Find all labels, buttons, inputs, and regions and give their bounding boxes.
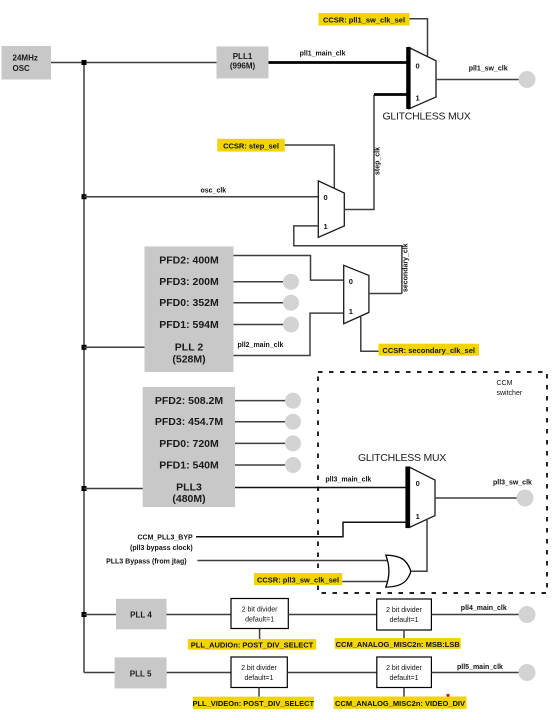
svg-text:default=1: default=1 bbox=[390, 617, 419, 624]
wire PLL2 input from trunk bbox=[84, 346, 145, 348]
svg-text:pll3_main_clk: pll3_main_clk bbox=[325, 477, 371, 484]
svg-text:CCSR: secondary_clk_sel: CCSR: secondary_clk_sel bbox=[382, 346, 475, 355]
svg-text:(480M): (480M) bbox=[172, 493, 205, 505]
terminal PFD0 352M bbox=[283, 295, 299, 311]
terminal PFD0 720M bbox=[285, 435, 301, 451]
svg-text:step_clk: step_clk bbox=[375, 147, 382, 175]
CCM switcher dashed box bbox=[318, 372, 547, 593]
wire PLL3 Bypass to OR gate bbox=[197, 560, 387, 562]
wire step_clk bbox=[344, 95, 374, 210]
wire trunk to PLL4 bbox=[84, 614, 116, 616]
svg-text:PFD0: 352M: PFD0: 352M bbox=[159, 297, 219, 309]
svg-text:switcher: switcher bbox=[497, 390, 523, 397]
svg-text:pll3_sw_clk: pll3_sw_clk bbox=[493, 480, 532, 487]
svg-text:CCM: CCM bbox=[497, 380, 513, 387]
node junction osc/trunk bbox=[82, 60, 87, 65]
svg-text:CCSR: step_sel: CCSR: step_sel bbox=[223, 142, 279, 151]
svg-text:CCM_ANALOG_MISC2n: VIDEO_DIV: CCM_ANALOG_MISC2n: VIDEO_DIV bbox=[335, 699, 465, 708]
svg-text:PLL3: PLL3 bbox=[176, 482, 202, 494]
wire divider D3 to divider D4 bbox=[287, 672, 377, 674]
oscillator OSC (24MHz) bbox=[2, 46, 52, 80]
svg-text:0: 0 bbox=[349, 277, 353, 286]
wire pll1_main_clk bbox=[269, 61, 407, 64]
wire divider D1 to PLL_AUDIOn label bbox=[259, 629, 261, 640]
terminal PFD2 508.2M bbox=[285, 393, 301, 409]
wire osc output to PLL1 bbox=[51, 62, 217, 64]
wire pll3_main_clk bbox=[235, 487, 407, 489]
wire PLL3 input from trunk bbox=[84, 488, 143, 490]
wire divider D3 to PLL_VIDEOn label bbox=[258, 688, 260, 697]
register label PLL_AUDIOn: POST_DIV_SELECT bbox=[188, 639, 316, 650]
terminal PFD3 200M bbox=[283, 274, 299, 290]
svg-text:OSC: OSC bbox=[13, 64, 31, 73]
CCSR: secondary_clk_sel register label bbox=[379, 344, 480, 356]
wire pll1_sw_clk output bbox=[436, 79, 520, 81]
wire PFD0 352M stub bbox=[234, 302, 284, 304]
svg-text:2 bit divider: 2 bit divider bbox=[242, 607, 278, 614]
node junction PLL4 branch bbox=[82, 612, 87, 617]
svg-text:PLL1: PLL1 bbox=[233, 52, 253, 61]
svg-text:default=1: default=1 bbox=[390, 675, 419, 682]
wire PFD2 400M to secondary mux input 0 bbox=[234, 256, 344, 281]
svg-text:pll4_main_clk: pll4_main_clk bbox=[461, 605, 507, 612]
svg-text:pll1_main_clk: pll1_main_clk bbox=[300, 51, 346, 58]
svg-text:PLL 4: PLL 4 bbox=[130, 611, 152, 620]
divider D3 2 bit divider bbox=[231, 657, 287, 688]
svg-text:CCSR: pll1_sw_clk_sel: CCSR: pll1_sw_clk_sel bbox=[323, 16, 405, 25]
PLL1 (996M) bbox=[217, 47, 269, 79]
wire divider D1 to divider D2 bbox=[288, 614, 376, 616]
op-amp mux U1 GLITCHLESS MUX top bbox=[406, 47, 436, 109]
svg-text:default=1: default=1 bbox=[245, 617, 274, 624]
wire pll4_main_clk bbox=[431, 614, 519, 616]
svg-text:1: 1 bbox=[349, 307, 353, 316]
CCSR: pll3_sw_clk_sel register label bbox=[254, 573, 342, 585]
wire pll3_sw_clk_sel to OR gate bbox=[342, 581, 387, 583]
svg-text:PLL_VIDEOn: POST_DIV_SELECT: PLL_VIDEOn: POST_DIV_SELECT bbox=[192, 699, 314, 708]
divider D1 2 bit divider bbox=[231, 599, 288, 629]
wire main vertical trunk bbox=[83, 63, 85, 673]
svg-text:pll2_main_clk: pll2_main_clk bbox=[238, 342, 284, 349]
wire pll2_main_clk to secondary mux input 1 bbox=[234, 313, 344, 355]
wire PFD3 200M stub bbox=[234, 281, 284, 283]
svg-text:1: 1 bbox=[416, 94, 420, 103]
wire select secondary mux bbox=[361, 317, 379, 351]
CCSR: pll1_sw_clk_sel register label bbox=[319, 13, 410, 26]
terminal pll5_main_clk bbox=[519, 664, 536, 681]
svg-text:secondary_clk: secondary_clk bbox=[402, 243, 409, 292]
svg-text:2 bit divider: 2 bit divider bbox=[386, 665, 422, 672]
mux U4 GLITCHLESS MUX bottom bbox=[405, 467, 435, 529]
svg-text:pll5_main_clk: pll5_main_clk bbox=[457, 664, 503, 671]
svg-text:24MHz: 24MHz bbox=[13, 54, 38, 63]
wire pll5_main_clk bbox=[431, 672, 518, 674]
svg-text:PFD3: 454.7M: PFD3: 454.7M bbox=[155, 416, 224, 428]
PLL 4 block bbox=[116, 599, 167, 630]
register label PLL_VIDEOn: POST_DIV_SELECT bbox=[192, 697, 314, 710]
terminal PFD3 454.7M bbox=[285, 414, 301, 430]
svg-text:PFD0: 720M: PFD0: 720M bbox=[159, 438, 219, 450]
svg-text:osc_clk: osc_clk bbox=[201, 187, 227, 194]
svg-text:2 bit divider: 2 bit divider bbox=[241, 665, 277, 672]
svg-text:1: 1 bbox=[324, 222, 328, 231]
PLL3 (480M) block bbox=[143, 387, 235, 507]
svg-text:CCM_PLL3_BYP: CCM_PLL3_BYP bbox=[137, 535, 193, 542]
wire divider D2 to CCM_ANALOG_MISC2n label bbox=[403, 630, 405, 638]
wire select step mux bbox=[285, 145, 335, 189]
svg-text:CCSR: pll3_sw_clk_sel: CCSR: pll3_sw_clk_sel bbox=[257, 575, 339, 584]
register label CCM_ANALOG_MISC2n: VIDEO_DIV bbox=[334, 694, 467, 709]
wire PLL5 to divider bbox=[167, 672, 231, 674]
wire secondary mux output bbox=[369, 293, 402, 295]
wire PLL4 to divider bbox=[167, 614, 232, 616]
svg-text:(528M): (528M) bbox=[172, 354, 205, 366]
svg-text:PLL3 Bypass (from jtag): PLL3 Bypass (from jtag) bbox=[106, 559, 187, 566]
mux U2 step mux bbox=[318, 181, 344, 238]
terminal pll4_main_clk bbox=[519, 606, 536, 623]
CCSR: step_sel register label bbox=[217, 139, 284, 152]
register label CCM_ANALOG_MISC2n: MSB:LSB bbox=[335, 638, 461, 649]
terminal pll1_sw_clk bbox=[519, 71, 536, 88]
svg-text:(996M): (996M) bbox=[230, 62, 256, 71]
node junction osc_clk branch bbox=[82, 194, 87, 199]
wire secondary_clk to step mux input 1 bbox=[294, 226, 402, 294]
wire PFD2 508.2M stub bbox=[235, 400, 285, 402]
PLL 5 block bbox=[115, 657, 167, 688]
svg-text:pll1_sw_clk: pll1_sw_clk bbox=[469, 66, 508, 73]
svg-text:2 bit divider: 2 bit divider bbox=[386, 607, 422, 614]
wire PFD3 454.7M stub bbox=[235, 421, 285, 423]
svg-text:GLITCHLESS MUX: GLITCHLESS MUX bbox=[358, 452, 446, 464]
wire PFD0 720M stub bbox=[235, 442, 285, 444]
svg-text:PFD2: 400M: PFD2: 400M bbox=[159, 255, 219, 267]
svg-text:PLL_AUDIOn: POST_DIV_SELECT: PLL_AUDIOn: POST_DIV_SELECT bbox=[191, 641, 314, 650]
wire step mux out to mux U1 input 1 bbox=[374, 93, 407, 96]
terminal PFD1 540M bbox=[285, 457, 301, 473]
node junction PLL3 branch bbox=[82, 486, 87, 491]
wire PFD1 540M stub bbox=[235, 464, 285, 466]
wire CCM_PLL3_BYP to mux U4 input 1 bbox=[196, 522, 407, 536]
svg-text:0: 0 bbox=[416, 479, 420, 488]
PLL 2 (528M) block bbox=[145, 247, 234, 373]
terminal pll3_sw_clk bbox=[517, 490, 534, 507]
OR gate G1 bbox=[386, 555, 411, 587]
wire osc_clk bbox=[84, 196, 318, 198]
wire trunk to PLL5 bbox=[84, 672, 115, 674]
svg-text:default=1: default=1 bbox=[245, 675, 274, 682]
wire divider D4 to CCM_ANALOG_MISC2n VIDEO label bbox=[403, 688, 405, 697]
svg-text:0: 0 bbox=[416, 62, 420, 71]
svg-text:(pll3 bypass clock): (pll3 bypass clock) bbox=[130, 545, 193, 552]
wire select mux U1 bbox=[410, 19, 428, 57]
divider D2 2 bit divider bbox=[377, 599, 432, 630]
svg-text:PLL 5: PLL 5 bbox=[130, 670, 152, 679]
svg-text:CCM_ANALOG_MISC2n: MSB:LSB: CCM_ANALOG_MISC2n: MSB:LSB bbox=[336, 640, 461, 649]
wire OR gate output to mux U4 select bbox=[411, 519, 427, 572]
svg-text:PFD1: 540M: PFD1: 540M bbox=[159, 460, 219, 472]
svg-text:GLITCHLESS MUX: GLITCHLESS MUX bbox=[382, 111, 470, 123]
svg-text:0: 0 bbox=[324, 193, 328, 202]
svg-text:PFD2: 508.2M: PFD2: 508.2M bbox=[155, 395, 224, 407]
wire PFD1 594M stub bbox=[234, 324, 284, 326]
terminal PFD1 594M bbox=[283, 317, 299, 333]
node junction PLL2 branch bbox=[82, 345, 87, 350]
mux U3 secondary mux bbox=[344, 265, 369, 323]
svg-text:PFD3: 200M: PFD3: 200M bbox=[159, 276, 219, 288]
divider D4 2 bit divider bbox=[377, 657, 432, 688]
svg-text:1: 1 bbox=[416, 512, 420, 521]
wire pll3_sw_clk output bbox=[435, 497, 518, 499]
svg-text:PLL 2: PLL 2 bbox=[175, 342, 204, 354]
svg-text:PFD1: 594M: PFD1: 594M bbox=[159, 319, 219, 331]
